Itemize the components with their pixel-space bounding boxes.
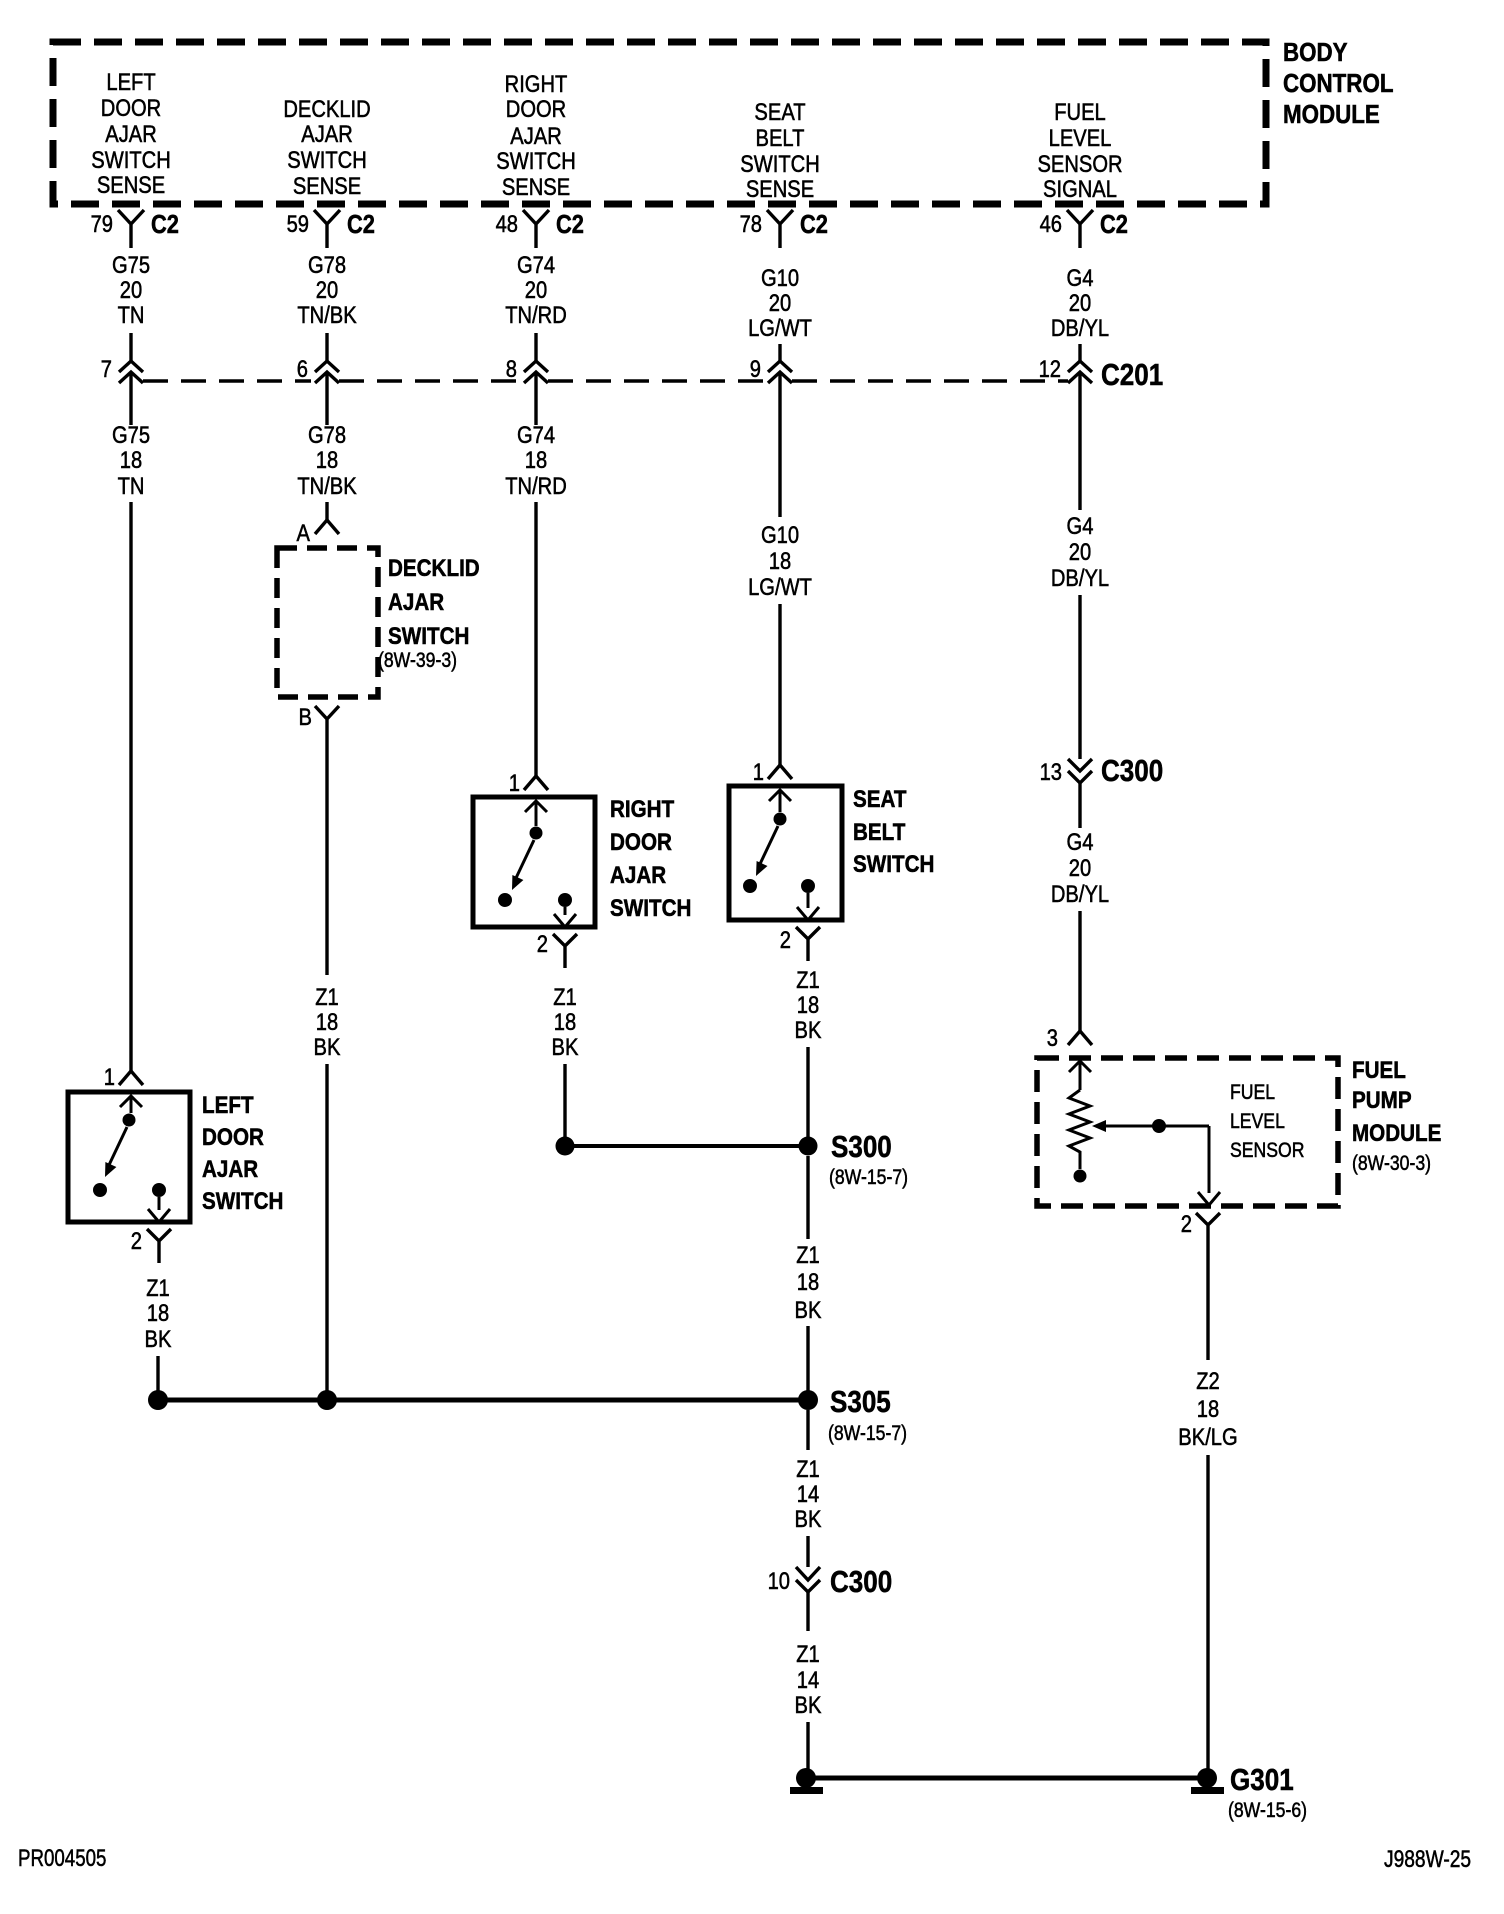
wire col3 to S300 [563, 1064, 566, 1138]
node: C201 pin numbers [101, 355, 1061, 382]
svg-text:Z1: Z1 [796, 1455, 820, 1482]
wire col2 below C201 [325, 372, 328, 425]
svg-text:DOOR: DOOR [101, 94, 161, 121]
body control module box [53, 42, 1266, 204]
wire G4 20 DB/YL label lower [1051, 828, 1109, 907]
svg-text:AJAR: AJAR [510, 122, 562, 149]
svg-text:SIGNAL: SIGNAL [1043, 175, 1117, 202]
svg-text:1: 1 [509, 769, 520, 796]
left door switch output arrow [148, 1197, 170, 1222]
wire col5 below C201 [1078, 372, 1081, 510]
wire col4 to S300 [806, 1047, 809, 1138]
svg-text:C300: C300 [1101, 754, 1163, 789]
svg-text:SENSE: SENSE [293, 172, 361, 199]
wire G74 20 TN/RD label [505, 251, 567, 328]
svg-text:BK/LG: BK/LG [1178, 1423, 1237, 1450]
svg-text:LG/WT: LG/WT [748, 314, 812, 341]
right door switch contact dot left [498, 893, 512, 907]
decklid switch pin B connector [315, 706, 339, 742]
svg-text:1: 1 [104, 1063, 115, 1090]
wire Z2 18 BK/LG label [1178, 1367, 1237, 1450]
right door switch output arrow [554, 907, 576, 927]
svg-text:BK: BK [795, 1505, 822, 1532]
right door ajar switch box [473, 797, 595, 927]
left door switch pin 1 [119, 1071, 143, 1085]
wire col2 to decklid switch [325, 502, 328, 520]
wire to C300 pin 10 [806, 1536, 809, 1567]
svg-text:46: 46 [1040, 210, 1062, 237]
svg-text:20: 20 [1069, 854, 1091, 881]
right door switch internal pin arrow [525, 801, 547, 826]
svg-text:SWITCH: SWITCH [91, 146, 170, 173]
svg-text:C2: C2 [556, 210, 584, 239]
right door switch contact dot top [530, 827, 543, 840]
left door switch blade [109, 1127, 127, 1165]
wire col1 below C201 [129, 372, 132, 425]
node: LEFT DOOR AJAR SWITCH SENSE [91, 68, 170, 198]
node: BODY CONTROL MODULE label [1283, 38, 1394, 129]
svg-text:(8W-15-7): (8W-15-7) [829, 1166, 908, 1190]
svg-text:DB/YL: DB/YL [1051, 564, 1109, 591]
svg-text:13: 13 [1040, 758, 1062, 785]
svg-text:Z1: Z1 [796, 966, 820, 993]
svg-text:FUEL: FUEL [1054, 98, 1106, 125]
svg-text:LEFT: LEFT [106, 68, 156, 95]
ground G301 [806, 1776, 1207, 1781]
svg-text:18: 18 [316, 1008, 338, 1035]
svg-text:TN/BK: TN/BK [297, 301, 357, 328]
connector C2 pin 46 [1040, 210, 1128, 248]
svg-text:18: 18 [120, 446, 142, 473]
svg-text:PR004505: PR004505 [18, 1845, 106, 1872]
svg-text:2: 2 [537, 930, 548, 957]
wire wiper down to pin 2 [1198, 1126, 1220, 1205]
svg-text:BELT: BELT [756, 124, 805, 151]
right door switch pin 2 [553, 934, 577, 968]
wire col4 to seat belt switch [778, 604, 781, 765]
svg-text:SWITCH: SWITCH [496, 147, 575, 174]
svg-text:BK: BK [314, 1033, 341, 1060]
right door switch blade [516, 840, 534, 878]
wire to G301 [806, 1722, 809, 1770]
svg-text:SENSE: SENSE [97, 171, 165, 198]
svg-text:BODY: BODY [1283, 38, 1348, 67]
svg-text:Z1: Z1 [553, 983, 577, 1010]
svg-text:7: 7 [101, 355, 112, 382]
connector C300 pin 10 [796, 1567, 820, 1592]
wire Z1 18 BK label col1 [145, 1274, 172, 1352]
svg-text:8: 8 [506, 355, 517, 382]
wire Z1 18 BK label col3 [552, 983, 579, 1060]
svg-text:LEFT: LEFT [202, 1092, 254, 1119]
wire G4 20 DB/YL label [1051, 264, 1109, 341]
node: DECKLID AJAR SWITCH label [378, 555, 480, 673]
svg-text:18: 18 [554, 1008, 576, 1035]
svg-text:59: 59 [287, 210, 309, 237]
svg-text:G75: G75 [112, 421, 150, 448]
wire col3 below C201 [534, 372, 537, 425]
wiper junction dot [1152, 1119, 1166, 1133]
wire: C201 dashed bulkhead line [143, 379, 1068, 383]
svg-text:G4: G4 [1067, 264, 1094, 291]
svg-text:48: 48 [496, 210, 518, 237]
decklid ajar switch box [277, 548, 378, 697]
svg-text:AJAR: AJAR [388, 589, 444, 616]
seat belt switch output arrow [797, 893, 819, 920]
svg-text:SEAT: SEAT [754, 98, 806, 125]
svg-text:AJAR: AJAR [202, 1156, 258, 1183]
left door switch internal pin arrow [120, 1096, 142, 1113]
svg-text:BK: BK [795, 1296, 822, 1323]
node: J988W-25 [1384, 1845, 1471, 1873]
svg-text:14: 14 [797, 1480, 819, 1507]
node: FUEL LEVEL SENSOR SIGNAL [1037, 98, 1122, 202]
seat belt switch blade [760, 826, 778, 864]
wire col5 to G301 [1206, 1455, 1209, 1770]
node: SEAT BELT SWITCH SENSE [740, 98, 819, 202]
svg-text:RIGHT: RIGHT [610, 796, 674, 823]
svg-text:RIGHT: RIGHT [505, 70, 568, 97]
svg-text:G10: G10 [761, 521, 799, 548]
svg-text:TN: TN [118, 472, 145, 499]
svg-text:SWITCH: SWITCH [202, 1188, 283, 1215]
svg-text:TN/RD: TN/RD [505, 472, 567, 499]
connector C2 pin 59 [287, 210, 375, 248]
svg-text:G74: G74 [517, 251, 555, 278]
svg-text:18: 18 [797, 1268, 819, 1295]
svg-text:TN: TN [118, 301, 145, 328]
wire G75 18 TN label [112, 421, 150, 499]
node: FUEL LEVEL SENSOR label [1230, 1081, 1304, 1163]
wire col1 to S305 [156, 1356, 159, 1392]
svg-text:18: 18 [797, 991, 819, 1018]
svg-text:SENSE: SENSE [502, 173, 570, 200]
wire below C300 col5 [1078, 783, 1081, 828]
wire col1 to C201 [129, 333, 132, 361]
svg-text:SWITCH: SWITCH [853, 851, 934, 878]
svg-text:20: 20 [120, 276, 142, 303]
svg-text:TN/BK: TN/BK [297, 472, 357, 499]
right door switch contact dot right [558, 893, 572, 907]
wire Z1 18 BK label below S300 [795, 1241, 822, 1323]
svg-text:9: 9 [750, 355, 761, 382]
svg-text:A: A [297, 519, 311, 546]
svg-text:2: 2 [131, 1227, 142, 1254]
fuel level sensor bottom terminal dot [1074, 1170, 1087, 1183]
svg-text:Z1: Z1 [796, 1640, 820, 1667]
svg-text:S305: S305 [830, 1385, 891, 1420]
decklid switch pin A connector [315, 520, 339, 534]
svg-text:SWITCH: SWITCH [287, 146, 366, 173]
svg-text:G78: G78 [308, 421, 346, 448]
wire to fuel pump module [1078, 911, 1081, 1031]
wire col3 to right door switch [534, 502, 537, 776]
svg-text:10: 10 [768, 1567, 790, 1594]
node: SEAT BELT SWITCH label [853, 786, 934, 878]
svg-text:BK: BK [795, 1691, 822, 1718]
svg-text:20: 20 [1069, 538, 1091, 565]
svg-text:20: 20 [525, 276, 547, 303]
node: RIGHT DOOR AJAR SWITCH SENSE [496, 70, 575, 200]
connector C2 pin 48 [496, 210, 584, 248]
wire to S305 [806, 1326, 809, 1392]
svg-text:79: 79 [91, 210, 113, 237]
svg-text:SWITCH: SWITCH [610, 895, 691, 922]
svg-text:MODULE: MODULE [1283, 100, 1380, 129]
node: LEFT DOOR AJAR SWITCH label [202, 1092, 283, 1215]
wire G78 18 TN/BK label [297, 421, 357, 499]
svg-text:CONTROL: CONTROL [1283, 69, 1394, 98]
svg-text:BK: BK [145, 1325, 172, 1352]
svg-text:2: 2 [780, 926, 791, 953]
seat belt switch internal pin arrow [769, 790, 791, 812]
svg-text:BK: BK [795, 1016, 822, 1043]
svg-text:AJAR: AJAR [301, 120, 353, 147]
wire col4 to C201 [778, 344, 781, 361]
node: RIGHT DOOR AJAR SWITCH label [610, 796, 691, 922]
svg-text:G74: G74 [517, 421, 555, 448]
wire S300 down [806, 1156, 809, 1239]
svg-text:20: 20 [316, 276, 338, 303]
fuel pump module internal pin arrow [1069, 1061, 1091, 1090]
svg-text:TN/RD: TN/RD [505, 301, 567, 328]
svg-text:J988W-25: J988W-25 [1384, 1845, 1471, 1873]
fuel pump module pin 3 [1068, 1031, 1092, 1045]
svg-text:18: 18 [316, 446, 338, 473]
svg-text:G301: G301 [1230, 1763, 1294, 1798]
svg-text:DB/YL: DB/YL [1051, 314, 1109, 341]
svg-text:Z1: Z1 [315, 983, 339, 1010]
svg-text:SWITCH: SWITCH [388, 623, 469, 650]
svg-text:SEAT: SEAT [853, 786, 907, 813]
left door switch pin 2 [147, 1229, 171, 1263]
connector C300 pin 13 [1068, 759, 1092, 783]
seat belt switch pin 2 [796, 927, 820, 961]
wire G74 18 TN/RD label [505, 421, 567, 499]
wire col5 to C201 [1078, 344, 1081, 361]
svg-text:20: 20 [769, 289, 791, 316]
seat belt switch contact dot left [743, 879, 757, 893]
connector C201 pin 8 [524, 361, 548, 383]
svg-text:12: 12 [1039, 355, 1061, 382]
fuel pump module box [1037, 1058, 1338, 1206]
left door switch contact dot left [93, 1183, 107, 1197]
wire col4 below C201 [778, 372, 781, 517]
seat belt switch contact dot top [774, 813, 787, 826]
svg-text:6: 6 [297, 355, 308, 382]
svg-text:C201: C201 [1101, 358, 1163, 393]
svg-text:18: 18 [147, 1299, 169, 1326]
svg-text:DOOR: DOOR [506, 95, 566, 122]
wire G10 20 LG/WT label [748, 264, 812, 341]
fuel level sensor wiper arrow [1092, 1120, 1106, 1132]
svg-text:78: 78 [740, 210, 762, 237]
svg-text:20: 20 [1069, 289, 1091, 316]
svg-text:C2: C2 [800, 210, 828, 239]
wire G75 20 TN label [112, 251, 150, 328]
wire below C300 [806, 1592, 809, 1631]
wire Z1 14 BK label below C300 [795, 1640, 822, 1718]
connector C2 pin 78 [740, 210, 828, 248]
wire Z1 14 BK label above C300 [795, 1455, 822, 1532]
svg-text:LEVEL: LEVEL [1049, 124, 1112, 151]
svg-text:1: 1 [753, 758, 764, 785]
svg-text:FUEL: FUEL [1352, 1057, 1406, 1084]
resistor: fuel level sensor element [1069, 1090, 1090, 1169]
svg-text:AJAR: AJAR [105, 120, 157, 147]
svg-text:G4: G4 [1067, 512, 1094, 539]
svg-text:G78: G78 [308, 251, 346, 278]
left door switch contact dot right [152, 1183, 166, 1197]
connector C201 pin 7 [119, 361, 143, 383]
splice S305 [158, 1398, 808, 1403]
right door switch pin 1 [524, 776, 548, 790]
svg-text:G10: G10 [761, 264, 799, 291]
wire col3 to C201 [534, 333, 537, 361]
svg-text:DB/YL: DB/YL [1051, 880, 1109, 907]
svg-text:C2: C2 [151, 210, 179, 239]
svg-text:(8W-30-3): (8W-30-3) [1352, 1152, 1431, 1176]
svg-text:Z1: Z1 [146, 1274, 170, 1301]
connector C2 pin 79 [91, 210, 179, 248]
svg-text:18: 18 [1197, 1395, 1219, 1422]
svg-text:18: 18 [769, 547, 791, 574]
svg-text:S300: S300 [831, 1130, 892, 1165]
wire decklid B down [325, 742, 328, 975]
svg-text:Z1: Z1 [796, 1241, 820, 1268]
svg-text:DECKLID: DECKLID [388, 555, 480, 582]
svg-text:SWITCH: SWITCH [740, 150, 819, 177]
svg-text:(8W-15-6): (8W-15-6) [1228, 1799, 1307, 1823]
svg-text:FUEL: FUEL [1230, 1081, 1275, 1105]
connector C201 pin 12 [1068, 361, 1092, 383]
svg-text:C2: C2 [1100, 210, 1128, 239]
svg-text:3: 3 [1047, 1024, 1058, 1051]
left door switch contact dot top [123, 1114, 136, 1127]
connector C201 pin 9 [768, 361, 792, 383]
node: DECKLID AJAR SWITCH SENSE [283, 95, 370, 199]
svg-text:C300: C300 [830, 1565, 892, 1600]
svg-text:SENSOR: SENSOR [1037, 150, 1122, 177]
svg-text:LEVEL: LEVEL [1230, 1110, 1285, 1134]
wire G10 18 LG/WT label [748, 521, 812, 600]
wire col5 to C300 [1078, 595, 1081, 759]
wire col1 long down to left door switch [129, 502, 132, 1071]
wire Z1 18 BK label col4 [795, 966, 822, 1043]
left door ajar switch box [68, 1092, 190, 1222]
node: FUEL PUMP MODULE label [1352, 1057, 1441, 1176]
wire G4 20 DB/YL label mid [1051, 512, 1109, 591]
svg-text:MODULE: MODULE [1352, 1120, 1441, 1147]
svg-text:(8W-15-7): (8W-15-7) [828, 1422, 907, 1446]
svg-text:BK: BK [552, 1033, 579, 1060]
splice S300 [565, 1144, 808, 1148]
wire pin2 down [1206, 1247, 1209, 1360]
connector C201 pin 6 [315, 361, 339, 383]
svg-text:G75: G75 [112, 251, 150, 278]
seat belt switch pin 1 [768, 765, 792, 779]
svg-text:DOOR: DOOR [202, 1124, 264, 1151]
node: PR004505 [18, 1845, 106, 1872]
svg-text:SENSOR: SENSOR [1230, 1139, 1304, 1163]
wire G78 20 TN/BK label [297, 251, 357, 328]
svg-text:DOOR: DOOR [610, 829, 672, 856]
wire Z1 18 BK label col2 [314, 983, 341, 1060]
svg-text:BELT: BELT [853, 819, 906, 846]
seat belt switch contact dot right [801, 879, 815, 893]
svg-text:(8W-39-3): (8W-39-3) [378, 649, 457, 673]
fuel pump module pin 2 [1196, 1213, 1220, 1247]
svg-text:SENSE: SENSE [746, 175, 814, 202]
node: C201 label [1101, 358, 1163, 393]
svg-text:2: 2 [1181, 1210, 1192, 1237]
wire col2 to S305 [325, 1064, 328, 1392]
wire col2 to C201 [325, 333, 328, 361]
svg-text:C2: C2 [347, 210, 375, 239]
wire S305 down [806, 1410, 809, 1450]
svg-text:AJAR: AJAR [610, 862, 666, 889]
svg-text:Z2: Z2 [1196, 1367, 1220, 1394]
svg-text:18: 18 [525, 446, 547, 473]
svg-text:DECKLID: DECKLID [283, 95, 370, 122]
svg-text:LG/WT: LG/WT [748, 573, 812, 600]
seat belt switch box [729, 786, 842, 920]
svg-text:14: 14 [797, 1666, 819, 1693]
svg-text:G4: G4 [1067, 828, 1094, 855]
svg-text:B: B [299, 703, 312, 730]
svg-text:PUMP: PUMP [1352, 1087, 1412, 1114]
